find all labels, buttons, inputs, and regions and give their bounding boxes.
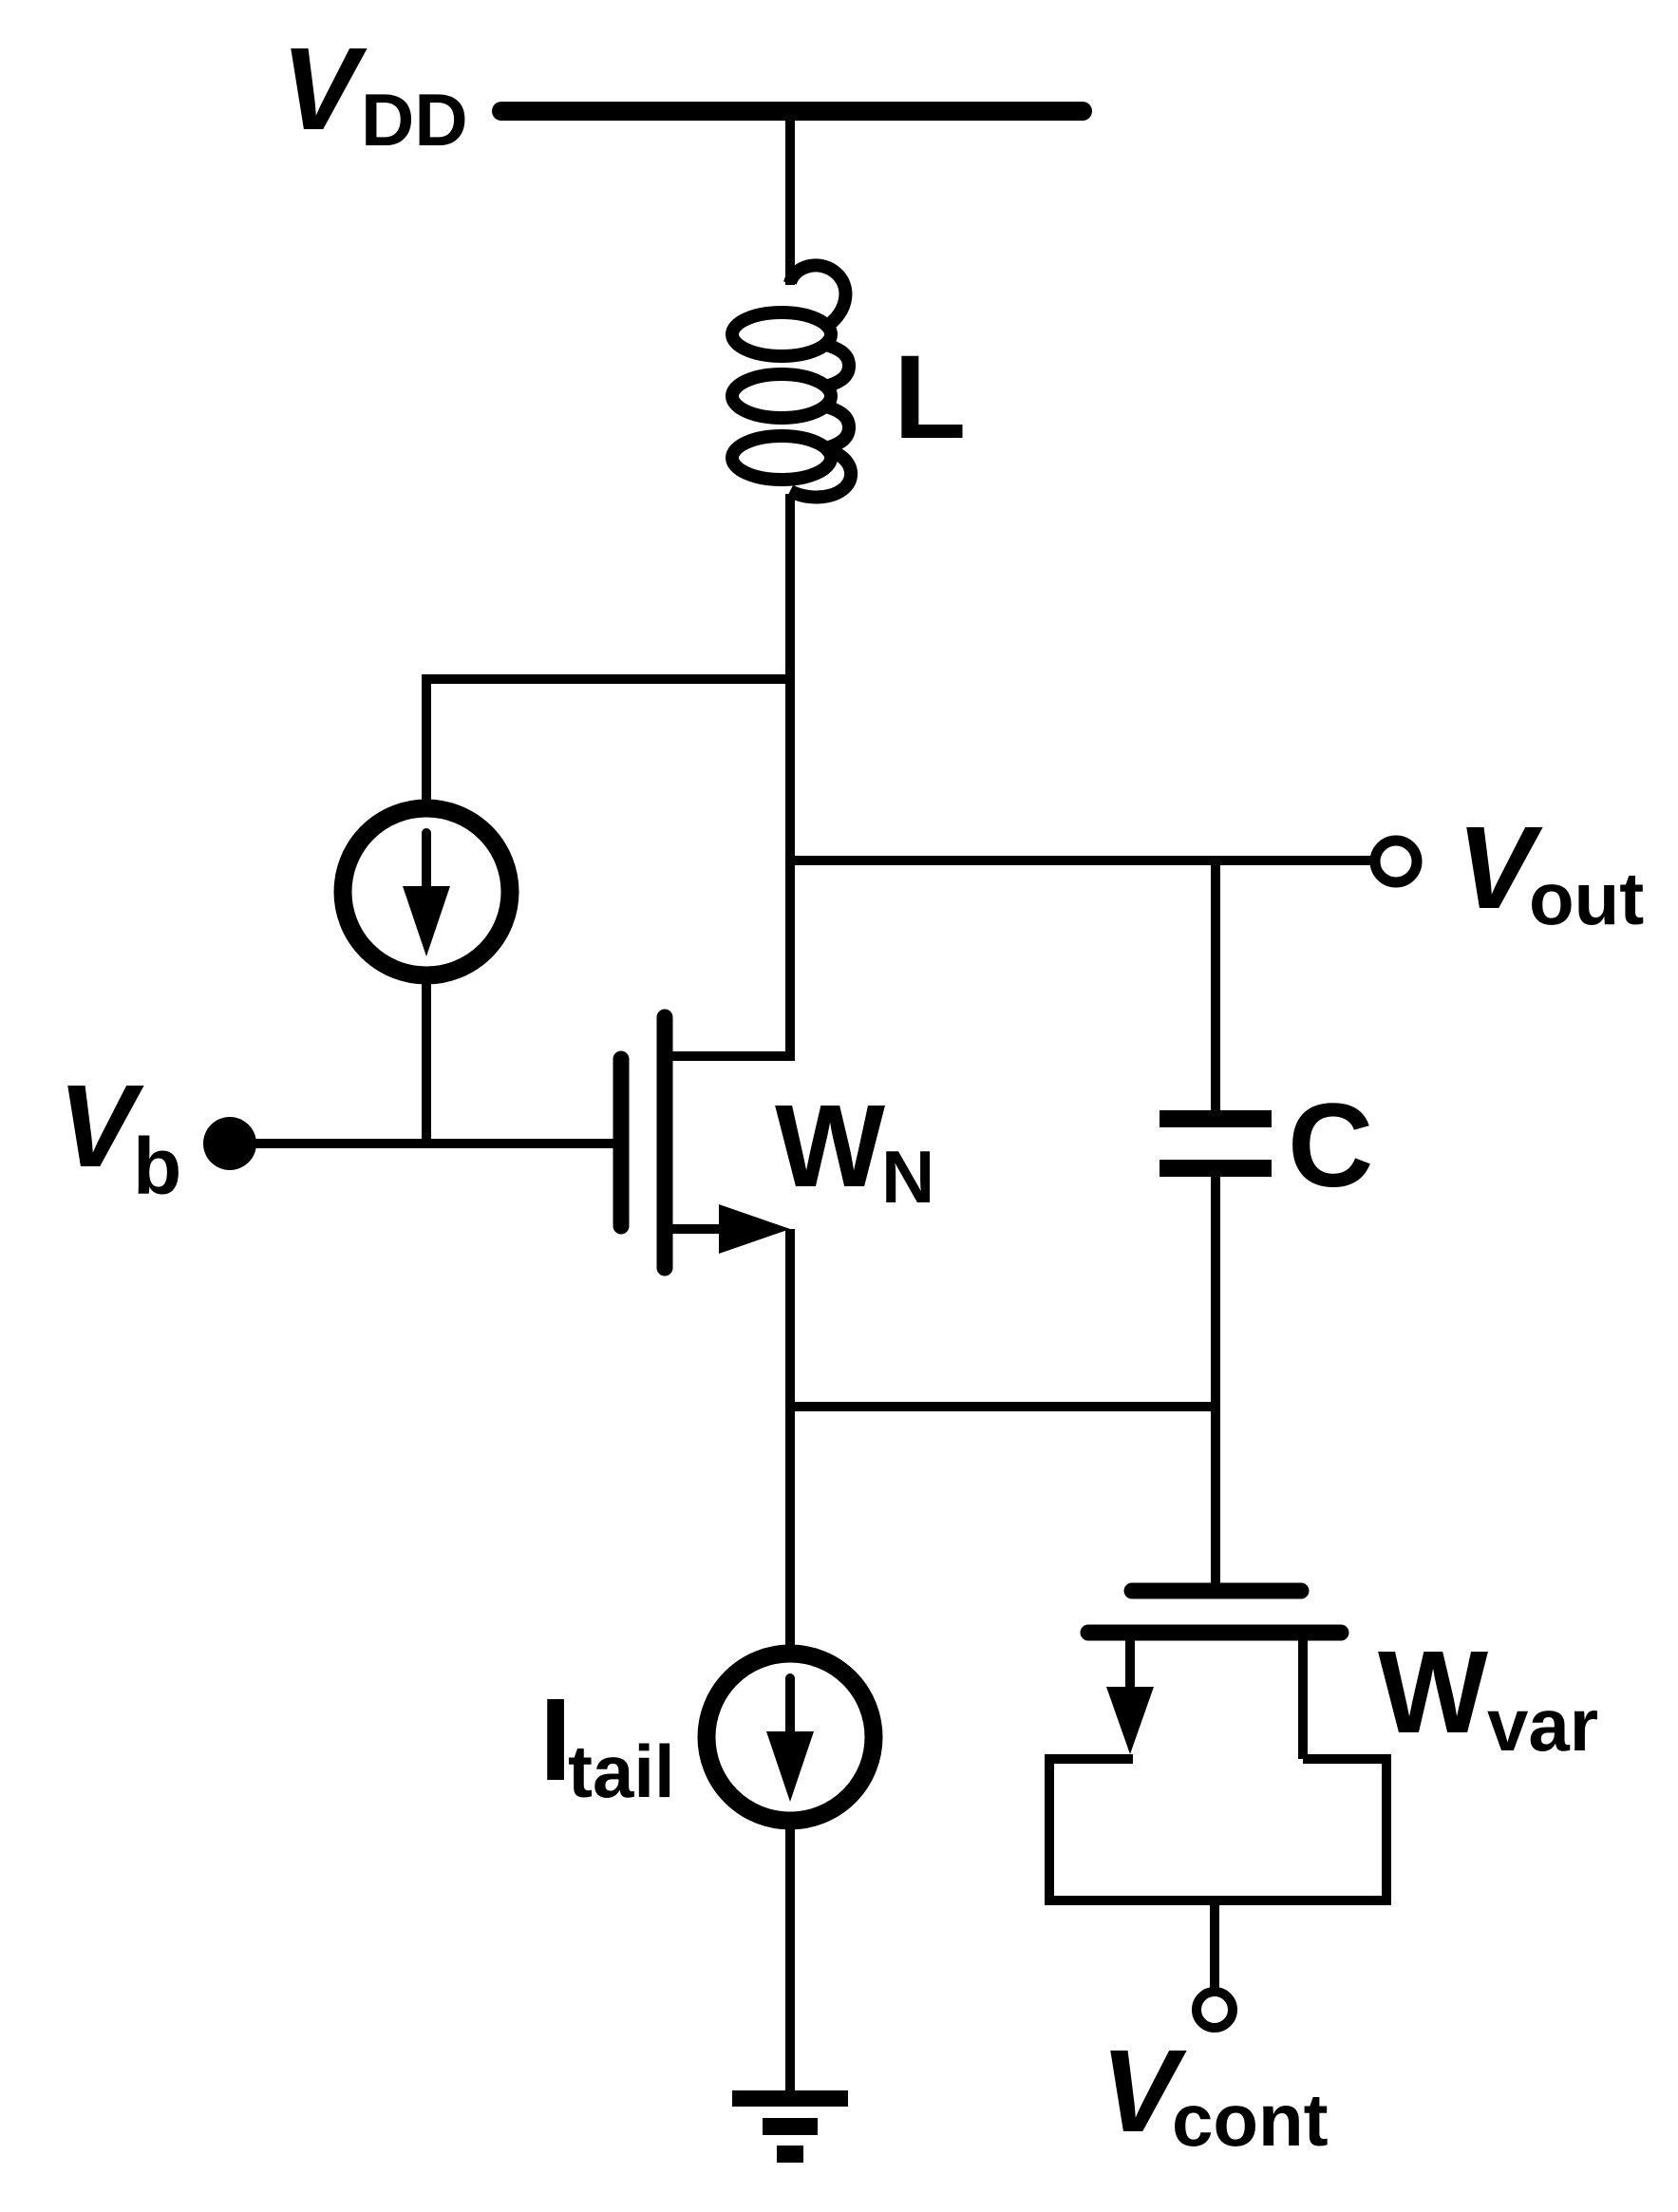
svg-text:var: var	[1487, 1683, 1598, 1767]
svg-text:C: C	[1288, 1080, 1373, 1212]
svg-text:V: V	[58, 1062, 144, 1192]
svg-text:tail: tail	[568, 1730, 675, 1813]
svg-text:DD: DD	[361, 78, 468, 161]
svg-text:out: out	[1529, 857, 1644, 940]
svg-text:W: W	[775, 1082, 885, 1212]
svg-text:L: L	[894, 331, 966, 463]
svg-text:cont: cont	[1172, 2078, 1329, 2162]
svg-text:b: b	[133, 1122, 181, 1211]
svg-text:N: N	[881, 1135, 934, 1219]
svg-text:V: V	[281, 25, 368, 155]
svg-text:W: W	[1378, 1628, 1488, 1758]
